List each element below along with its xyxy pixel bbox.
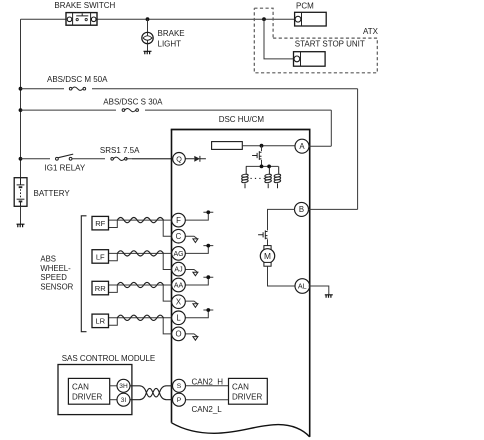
svg-text:B: B xyxy=(299,205,304,214)
svg-text:SRS1 7.5A: SRS1 7.5A xyxy=(100,146,140,155)
svg-text:CAN: CAN xyxy=(232,382,249,391)
svg-text:RF: RF xyxy=(95,219,105,228)
svg-text:CAN2_L: CAN2_L xyxy=(192,405,223,414)
svg-text:DRIVER: DRIVER xyxy=(232,393,262,402)
svg-text:AJ: AJ xyxy=(174,267,182,274)
svg-text:BRAKE SWITCH: BRAKE SWITCH xyxy=(54,1,115,10)
svg-text:START STOP UNIT: START STOP UNIT xyxy=(295,39,365,48)
svg-text:P: P xyxy=(177,397,182,404)
svg-text:3H: 3H xyxy=(119,383,128,390)
svg-text:3I: 3I xyxy=(121,397,127,404)
svg-text:LF: LF xyxy=(96,252,105,261)
svg-text:X: X xyxy=(176,298,182,307)
svg-text:ATX: ATX xyxy=(363,27,379,36)
svg-text:CAN: CAN xyxy=(72,382,89,391)
svg-text:AL: AL xyxy=(298,282,307,291)
svg-text:BRAKE: BRAKE xyxy=(158,29,185,38)
svg-text:SPEED: SPEED xyxy=(40,273,67,282)
svg-text:C: C xyxy=(176,232,182,241)
svg-text:CAN2_H: CAN2_H xyxy=(192,377,224,386)
svg-text:L: L xyxy=(176,314,181,323)
svg-text:LIGHT: LIGHT xyxy=(158,40,182,49)
svg-text:SAS CONTROL MODULE: SAS CONTROL MODULE xyxy=(62,354,156,363)
svg-text:RR: RR xyxy=(95,284,106,293)
svg-text:WHEEL-: WHEEL- xyxy=(40,264,71,273)
svg-text:ABS: ABS xyxy=(40,255,56,264)
svg-text:LR: LR xyxy=(95,317,105,326)
svg-text:F: F xyxy=(176,216,181,225)
svg-text:S: S xyxy=(177,383,182,390)
svg-text:PCM: PCM xyxy=(296,2,314,11)
svg-text:AG: AG xyxy=(173,251,183,258)
svg-text:A: A xyxy=(299,142,305,151)
svg-text:SENSOR: SENSOR xyxy=(40,282,73,291)
svg-text:Q: Q xyxy=(176,154,182,163)
svg-text:BATTERY: BATTERY xyxy=(34,189,71,198)
svg-text:M: M xyxy=(264,251,271,261)
svg-text:DSC HU/CM: DSC HU/CM xyxy=(219,115,265,124)
svg-text:DRIVER: DRIVER xyxy=(72,393,102,402)
svg-text:ABS/DSC S 30A: ABS/DSC S 30A xyxy=(103,97,163,106)
svg-text:O: O xyxy=(175,330,181,339)
svg-text:AA: AA xyxy=(174,283,184,290)
svg-text:IG1 RELAY: IG1 RELAY xyxy=(45,164,86,173)
svg-text:ABS/DSC M 50A: ABS/DSC M 50A xyxy=(47,75,108,84)
